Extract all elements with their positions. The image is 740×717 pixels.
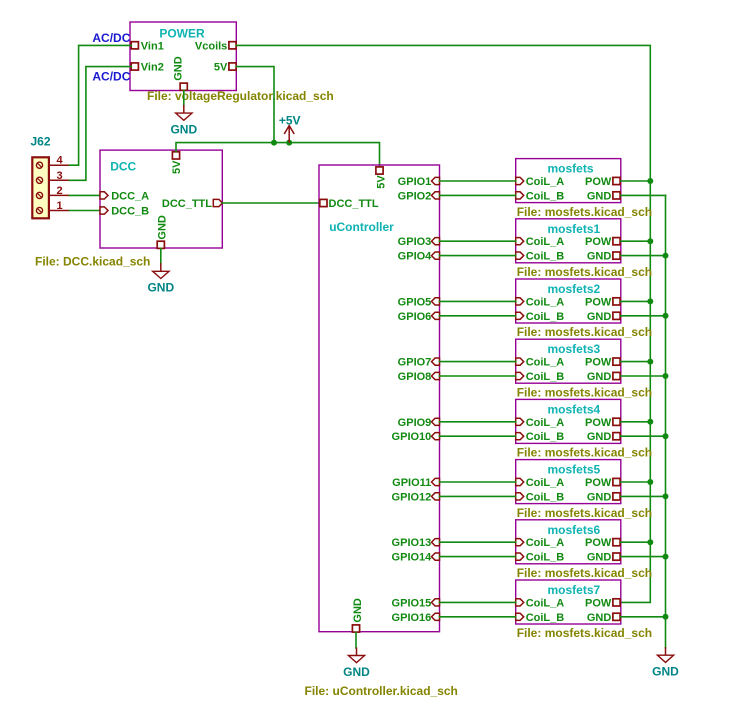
ground symbol (POWER) (170, 105, 197, 136)
sheet pin POW (mosfets) (585, 176, 620, 188)
sheet mosfets5 (516, 460, 621, 504)
junction POW bus row 4 (647, 359, 653, 365)
wire J62 pin4 to Vin1 (70, 45, 132, 165)
svg-text:GPIO10: GPIO10 (392, 431, 432, 443)
sheet pin GPIO9 (398, 417, 440, 429)
sheet pin POW (mosfets4) (585, 417, 620, 429)
sheet pin GND (mosfets4) (587, 431, 620, 443)
sheet pin Vin2 (131, 62, 164, 74)
svg-text:Vcoils: Vcoils (195, 40, 227, 52)
wire GPIO7 to CoiL_A (440, 361, 516, 363)
svg-text:GND: GND (157, 215, 169, 240)
wire GPIO14 to CoiL_B (440, 556, 516, 558)
connector J62 body (32, 157, 49, 218)
sheet pin CoiL_B (mosfets4) (516, 431, 565, 443)
svg-text:GPIO15: GPIO15 (392, 597, 432, 609)
svg-text:GPIO4: GPIO4 (398, 251, 433, 263)
wire GPIO10 to CoiL_B (440, 435, 516, 437)
svg-text:CoiL_A: CoiL_A (526, 597, 565, 609)
svg-text:CoiL_B: CoiL_B (526, 552, 565, 564)
wire GND to bus (mosfets) (621, 194, 666, 196)
power symbol +5V (279, 113, 301, 142)
svg-text:CoiL_B: CoiL_B (526, 371, 565, 383)
svg-text:File: DCC.kicad_sch: File: DCC.kicad_sch (35, 255, 150, 269)
svg-text:mosfets: mosfets (548, 162, 594, 176)
junction GND bus row 4 (663, 373, 669, 379)
junction POW bus row 7 (647, 539, 653, 545)
svg-text:File: mosfets.kicad_sch: File: mosfets.kicad_sch (517, 506, 652, 520)
wire DCC GND (160, 248, 162, 263)
svg-text:CoiL_B: CoiL_B (526, 491, 565, 503)
svg-text:POW: POW (585, 236, 612, 248)
wire POW to bus (mosfets1) (621, 240, 651, 242)
wire DCC_TTL (222, 202, 319, 204)
sheet pin POW (mosfets7) (585, 597, 620, 609)
sheet pin POW (mosfets6) (585, 537, 620, 549)
svg-text:GPIO11: GPIO11 (392, 477, 431, 489)
svg-text:uController: uController (329, 220, 394, 234)
J62 terminal 2 (36, 192, 42, 198)
sheet mosfets6 (516, 520, 621, 564)
sheet mosfets1 (516, 219, 621, 263)
sheet pin GPIO4 (398, 251, 440, 263)
junction POW bus row 2 (647, 238, 653, 244)
sheet POWER (130, 22, 236, 91)
junction POW bus row 1 (647, 178, 653, 184)
sheet pin DCC_TTL (uController left) (320, 198, 379, 210)
wire J62 pin3 to Vin2 (70, 67, 132, 181)
wire GND to bus (mosfets2) (621, 315, 666, 317)
sheet mosfets2 (516, 279, 621, 323)
wire Vcoils to POW bus (236, 45, 650, 602)
sheet pin GPIO5 (398, 296, 440, 308)
wire POW to bus (mosfets4) (621, 421, 651, 423)
svg-text:CoiL_A: CoiL_A (526, 357, 565, 369)
wire GPIO9 to CoiL_A (440, 421, 516, 423)
sheet pin 5V (uController top) (375, 167, 387, 189)
wire GPIO16 to CoiL_B (440, 616, 516, 618)
wire POW to bus (mosfets5) (621, 481, 651, 483)
svg-text:GND: GND (587, 552, 612, 564)
J62 terminal 1 (36, 207, 42, 213)
wire GND to bus (mosfets7) (621, 616, 666, 618)
sheet pin CoiL_B (mosfets5) (516, 491, 565, 503)
svg-text:GPIO13: GPIO13 (392, 537, 432, 549)
wire GPIO8 to CoiL_B (440, 375, 516, 377)
sheet pin GND (DCC bottom) (157, 215, 169, 248)
junction (274,142.6) (271, 140, 277, 146)
sheet pin CoiL_A (mosfets5) (516, 477, 565, 489)
svg-text:CoiL_A: CoiL_A (526, 296, 565, 308)
wire J62 pin2 to DCC_A (70, 194, 101, 196)
svg-text:CoiL_B: CoiL_B (526, 311, 565, 323)
svg-text:GND: GND (352, 598, 364, 623)
svg-text:File: voltageRegulator.kicad_s: File: voltageRegulator.kicad_sch (147, 89, 334, 103)
sheet pin CoiL_A (mosfets) (516, 176, 565, 188)
svg-text:GPIO16: GPIO16 (392, 612, 432, 624)
junction GND bus row 5 (663, 433, 669, 439)
junction POW bus row 6 (647, 479, 653, 485)
svg-text:File: mosfets.kicad_sch: File: mosfets.kicad_sch (517, 265, 652, 279)
sheet pin GPIO15 (392, 597, 440, 609)
svg-text:File: mosfets.kicad_sch: File: mosfets.kicad_sch (517, 325, 652, 339)
sheet pin GND (mosfets2) (587, 311, 620, 323)
wire POW to bus (mosfets) (621, 180, 651, 182)
sheet pin GPIO11 (392, 477, 439, 489)
sheet pin GPIO1 (398, 176, 440, 188)
sheet pin GPIO16 (392, 612, 440, 624)
svg-text:5V: 5V (214, 62, 228, 74)
svg-text:GPIO9: GPIO9 (398, 417, 432, 429)
svg-text:POW: POW (585, 417, 612, 429)
sheet pin DCC_TTL (DCC right) (162, 198, 222, 210)
svg-text:GND: GND (652, 665, 679, 679)
svg-text:GND: GND (587, 190, 612, 202)
svg-text:File: mosfets.kicad_sch: File: mosfets.kicad_sch (517, 385, 652, 399)
svg-text:AC/DC: AC/DC (92, 31, 130, 45)
sheet mosfets7 (516, 580, 621, 624)
sheet pin Vcoils (195, 40, 236, 52)
sheet pin GND (uController bottom) (352, 598, 364, 632)
sheet pin CoiL_A (mosfets7) (516, 597, 565, 609)
svg-text:5V: 5V (171, 160, 183, 174)
svg-text:mosfets1: mosfets1 (548, 222, 601, 236)
sheet pin CoiL_B (mosfets) (516, 190, 565, 202)
svg-text:GND: GND (343, 665, 370, 679)
svg-text:GND: GND (587, 612, 612, 624)
svg-text:CoiL_A: CoiL_A (526, 176, 565, 188)
svg-text:mosfets4: mosfets4 (548, 402, 601, 416)
wire POW to bus (mosfets2) (621, 300, 651, 302)
wire GPIO2 to CoiL_B (440, 194, 516, 196)
ground symbol (uController) (343, 647, 370, 678)
svg-text:mosfets5: mosfets5 (548, 463, 601, 477)
ground symbol (right bus) (652, 647, 679, 678)
wire GND to bus (mosfets1) (621, 255, 666, 257)
wire uController GND (355, 632, 357, 648)
sheet pin GPIO8 (398, 371, 440, 383)
sheet pin GND (mosfets6) (587, 552, 620, 564)
svg-text:Vin2: Vin2 (141, 62, 164, 74)
J62 terminal 4 (36, 162, 42, 168)
sheet mosfets4 (516, 399, 621, 443)
svg-text:DCC_A: DCC_A (111, 190, 149, 202)
sheet pin GPIO3 (398, 236, 440, 248)
wire J62 pin1 to DCC_B (70, 210, 101, 212)
svg-text:File: mosfets.kicad_sch: File: mosfets.kicad_sch (517, 626, 652, 640)
sheet pin GND (mosfets7) (587, 612, 620, 624)
sheet pin CoiL_B (mosfets2) (516, 311, 565, 323)
wire GND to bus (mosfets6) (621, 556, 666, 558)
sheet pin 5V (POWER) (214, 62, 236, 74)
svg-text:J62: J62 (31, 135, 51, 149)
svg-text:POW: POW (585, 176, 612, 188)
svg-text:GND: GND (170, 122, 197, 136)
sheet pin CoiL_A (mosfets3) (516, 357, 565, 369)
wire GPIO6 to CoiL_B (440, 315, 516, 317)
sheet pin GPIO12 (392, 491, 440, 503)
wire GND to bus (mosfets3) (621, 375, 666, 377)
svg-text:GPIO5: GPIO5 (398, 296, 432, 308)
svg-text:5V: 5V (375, 175, 387, 189)
svg-text:File: uController.kicad_sch: File: uController.kicad_sch (305, 684, 458, 698)
svg-text:GND: GND (173, 56, 185, 81)
svg-text:POW: POW (585, 357, 612, 369)
svg-text:mosfets7: mosfets7 (548, 583, 601, 597)
J62 pin 1 stub (49, 210, 70, 212)
sheet pin 5V (DCC top) (171, 152, 183, 174)
svg-text:CoiL_A: CoiL_A (526, 236, 565, 248)
svg-text:CoiL_B: CoiL_B (526, 251, 565, 263)
svg-text:AC/DC: AC/DC (92, 70, 130, 84)
svg-text:DCC_B: DCC_B (111, 206, 149, 218)
junction POW bus row 5 (647, 419, 653, 425)
sheet pin POW (mosfets5) (585, 477, 620, 489)
svg-text:CoiL_A: CoiL_A (526, 477, 565, 489)
sheet pin GPIO10 (392, 431, 440, 443)
svg-text:4: 4 (56, 155, 63, 167)
svg-text:File: mosfets.kicad_sch: File: mosfets.kicad_sch (517, 566, 652, 580)
svg-text:POWER: POWER (159, 27, 205, 41)
wire POW to bus (mosfets3) (621, 361, 651, 363)
sheet pin CoiL_A (mosfets2) (516, 296, 565, 308)
sheet pin GPIO6 (398, 311, 440, 323)
svg-text:CoiL_A: CoiL_A (526, 537, 565, 549)
sheet pin DCC_A (100, 190, 149, 202)
svg-text:GND: GND (147, 281, 174, 295)
svg-text:mosfets3: mosfets3 (548, 342, 601, 356)
junction GND bus row 2 (663, 253, 669, 259)
sheet pin GND (mosfets3) (587, 371, 620, 383)
svg-text:mosfets6: mosfets6 (548, 523, 601, 537)
svg-text:CoiL_B: CoiL_B (526, 612, 565, 624)
wire GPIO13 to CoiL_A (440, 541, 516, 543)
svg-text:CoiL_B: CoiL_B (526, 190, 565, 202)
svg-text:GPIO14: GPIO14 (392, 552, 433, 564)
svg-text:GND: GND (587, 491, 612, 503)
svg-text:GND: GND (587, 311, 612, 323)
wire GPIO11 to CoiL_A (440, 481, 516, 483)
sheet pin CoiL_A (mosfets1) (516, 236, 565, 248)
sheet DCC (100, 150, 222, 248)
svg-text:GPIO7: GPIO7 (398, 357, 432, 369)
svg-text:GND: GND (587, 431, 612, 443)
sheet pin GND (POWER bottom) (173, 56, 188, 90)
svg-text:GPIO2: GPIO2 (398, 190, 432, 202)
J62 pin 3 stub (49, 179, 70, 181)
svg-text:DCC: DCC (110, 159, 136, 173)
svg-text:2: 2 (56, 185, 62, 197)
sheet uController (319, 165, 440, 632)
svg-text:mosfets2: mosfets2 (548, 282, 601, 296)
svg-text:CoiL_B: CoiL_B (526, 431, 565, 443)
svg-text:3: 3 (56, 170, 62, 182)
ground symbol (DCC) (147, 263, 174, 294)
J62 pin 2 stub (49, 194, 70, 196)
wire POWER GND (183, 91, 185, 106)
svg-text:File: mosfets.kicad_sch: File: mosfets.kicad_sch (517, 446, 652, 460)
svg-text:DCC_TTL: DCC_TTL (162, 198, 212, 210)
junction GND bus row 8 (663, 614, 669, 620)
wire GPIO4 to CoiL_B (440, 255, 516, 257)
sheet pin DCC_B (100, 206, 149, 218)
wire GPIO5 to CoiL_A (440, 300, 516, 302)
sheet pin CoiL_B (mosfets6) (516, 552, 565, 564)
sheet pin POW (mosfets1) (585, 236, 620, 248)
sheet pin GPIO2 (398, 190, 440, 202)
svg-text:File: mosfets.kicad_sch: File: mosfets.kicad_sch (517, 205, 652, 219)
sheet mosfets3 (516, 339, 621, 383)
junction GND bus row 7 (663, 554, 669, 560)
sheet pin POW (mosfets3) (585, 357, 620, 369)
svg-text:POW: POW (585, 537, 612, 549)
wire GPIO1 to CoiL_A (440, 180, 516, 182)
svg-text:+5V: +5V (279, 113, 301, 127)
svg-text:GND: GND (587, 251, 612, 263)
svg-text:GPIO12: GPIO12 (392, 491, 432, 503)
sheet pin GPIO14 (392, 552, 440, 564)
wire GPIO12 to CoiL_B (440, 495, 516, 497)
svg-text:DCC_TTL: DCC_TTL (329, 198, 379, 210)
junction GND bus row 6 (663, 493, 669, 499)
J62 pin 4 stub (49, 164, 70, 166)
svg-text:POW: POW (585, 597, 612, 609)
wire GND to bus (mosfets4) (621, 435, 666, 437)
svg-text:GND: GND (587, 371, 612, 383)
svg-text:CoiL_A: CoiL_A (526, 417, 565, 429)
svg-text:GPIO1: GPIO1 (398, 176, 432, 188)
sheet pin GND (mosfets) (587, 190, 620, 202)
sheet pin Vin1 (131, 40, 164, 52)
J62 terminal 3 (36, 177, 42, 183)
sheet pin GPIO7 (398, 357, 440, 369)
sheet pin POW (mosfets2) (585, 296, 620, 308)
sheet pin CoiL_B (mosfets7) (516, 612, 565, 624)
junction (289,142.6) (286, 140, 292, 146)
wire GPIO15 to CoiL_A (440, 601, 516, 603)
wire GND to bus (mosfets5) (621, 495, 666, 497)
junction GND bus row 3 (663, 313, 669, 319)
wire GND bus vertical (665, 195, 667, 647)
svg-text:GPIO8: GPIO8 (398, 371, 432, 383)
sheet pin CoiL_A (mosfets6) (516, 537, 565, 549)
sheet mosfets (516, 159, 621, 203)
svg-text:Vin1: Vin1 (141, 40, 164, 52)
svg-text:POW: POW (585, 477, 612, 489)
junction POW bus row 3 (647, 298, 653, 304)
wire GPIO3 to CoiL_A (440, 240, 516, 242)
svg-text:GPIO3: GPIO3 (398, 236, 432, 248)
svg-text:POW: POW (585, 296, 612, 308)
wire +5V rail (176, 143, 380, 167)
sheet pin GND (mosfets1) (587, 251, 620, 263)
sheet pin CoiL_B (mosfets1) (516, 251, 565, 263)
wire POW to bus (mosfets6) (621, 541, 651, 543)
wire POWER 5V to +5V rail (236, 67, 274, 143)
sheet pin CoiL_A (mosfets4) (516, 417, 565, 429)
svg-text:1: 1 (56, 200, 62, 212)
sheet pin GPIO13 (392, 537, 440, 549)
svg-text:GPIO6: GPIO6 (398, 311, 432, 323)
sheet pin GND (mosfets5) (587, 491, 620, 503)
sheet pin CoiL_B (mosfets3) (516, 371, 565, 383)
